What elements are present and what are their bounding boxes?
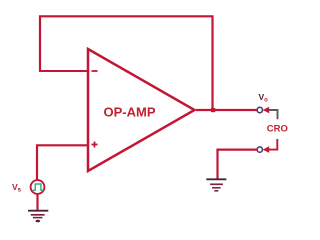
- svg-text:Vo: Vo: [259, 92, 269, 104]
- wire source to ground: [36, 194, 38, 211]
- source Vs: [31, 180, 45, 194]
- op-amp U1: [88, 49, 195, 171]
- svg-text:Vs: Vs: [12, 182, 22, 194]
- wire feedback loop (output to inverting input): [40, 16, 213, 110]
- svg-text:CRO: CRO: [267, 124, 288, 135]
- wire inverting input: [39, 70, 88, 72]
- wire non-inverting input: [37, 145, 88, 180]
- CRO probe upper lead with arrow: [263, 107, 278, 120]
- wire CRO ground lead: [218, 150, 258, 179]
- plus sign (non-inverting pin): [92, 142, 98, 148]
- ground (CRO): [206, 179, 226, 191]
- node lower terminal: [257, 147, 262, 152]
- junction dot: [211, 108, 215, 112]
- minus sign (inverting pin): [92, 70, 98, 72]
- ground (source): [28, 211, 48, 223]
- wire output: [196, 109, 257, 111]
- node Vo terminal: [257, 107, 262, 112]
- CRO probe lower lead with arrow: [263, 140, 279, 153]
- svg-text:OP-AMP: OP-AMP: [104, 105, 156, 120]
